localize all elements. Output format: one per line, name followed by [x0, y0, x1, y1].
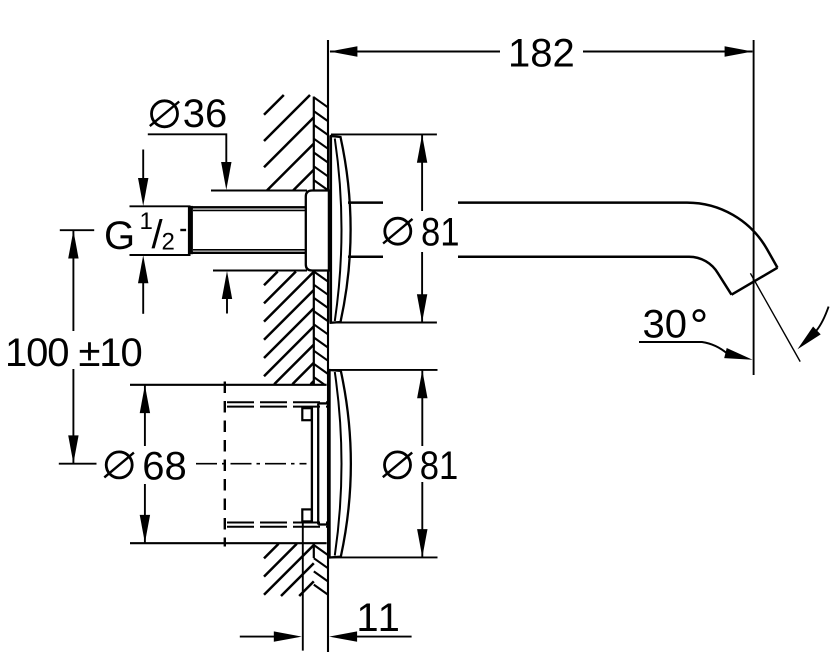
svg-text:11: 11 [356, 596, 402, 640]
wall section hatching (masonry) [264, 95, 314, 596]
supply pipe G 1/2 thread body [191, 207, 307, 253]
dimension Ø81 top: extension ticks [331, 134, 437, 322]
svg-text:2: 2 [162, 229, 175, 256]
angle 30 degrees: arc arrow onto reference line [798, 307, 829, 350]
bottom retaining clip [302, 509, 311, 521]
dimension Ø36: lower arrow [222, 271, 232, 314]
svg-text:81: 81 [421, 211, 460, 255]
dimension text Ø36 [150, 92, 228, 136]
top escutcheon rosette Ø81 [331, 136, 351, 323]
dimension Ø81 bottom: extension ticks [330, 370, 438, 558]
dimension text G 1/2 [104, 208, 186, 258]
spout outline [348, 203, 778, 295]
dimension Ø81 top: dimension line and arrows [417, 134, 427, 322]
dimension G 1/2: arrows [138, 150, 148, 314]
dimension 182: extension line right [753, 40, 755, 375]
svg-text:30: 30 [643, 303, 688, 347]
dimension Ø36: leader from text [148, 134, 232, 190]
dimension Ø36: extension lines [211, 191, 307, 271]
dimension text Ø68 [104, 444, 187, 488]
spout tip end face [732, 268, 778, 295]
hidden bottom ports (dashed) [227, 523, 327, 527]
svg-text:182: 182 [508, 31, 575, 75]
dimension 100 +/-10: dimension line and arrows [68, 230, 78, 464]
concealed valve housing top line / Ø68 extension [130, 384, 327, 386]
valve centre line [196, 463, 307, 465]
dimension G 1/2: extension lines [130, 206, 191, 255]
hidden top ports (dashed) [227, 402, 327, 406]
svg-text:100 ±10: 100 ±10 [5, 331, 142, 375]
dimension text 30 deg [643, 303, 705, 347]
dimension Ø81 bottom: dimension line and arrows [417, 370, 427, 558]
dimension 182: dimension line [329, 46, 752, 56]
dimension text Ø81 top [383, 211, 459, 255]
finished wall face line [327, 40, 329, 652]
dimension 11: arrows and lines [240, 631, 412, 641]
angle 30 degrees: reference line at 30 deg from vertical [750, 273, 800, 361]
bottom escutcheon rosette Ø81 [329, 370, 351, 558]
svg-text:81: 81 [420, 444, 459, 488]
dimension text Ø81 bottom [383, 444, 459, 488]
svg-text:36: 36 [183, 92, 228, 136]
cartridge front face lines [312, 403, 329, 524]
hidden housing rear edge (dashed) [224, 382, 226, 547]
pipe end cap (thread end) [188, 206, 193, 254]
dimension 100 +/-10: ticks [59, 230, 97, 464]
wall layer boundary line [313, 97, 315, 559]
wall finishing layer hatching (tile) [314, 97, 328, 594]
top retaining clip [302, 408, 311, 420]
wall collar flange Ø36 [306, 191, 329, 271]
concealed valve housing bottom line / Ø68 extension [130, 542, 327, 544]
svg-text:G: G [104, 214, 135, 258]
angle 30 degrees: leader with arrow to vertical line [639, 342, 753, 360]
dimension 11: extension line from clip face [302, 521, 304, 651]
svg-text:68: 68 [142, 444, 187, 488]
dimension Ø68: dimension line and arrows [140, 385, 150, 543]
